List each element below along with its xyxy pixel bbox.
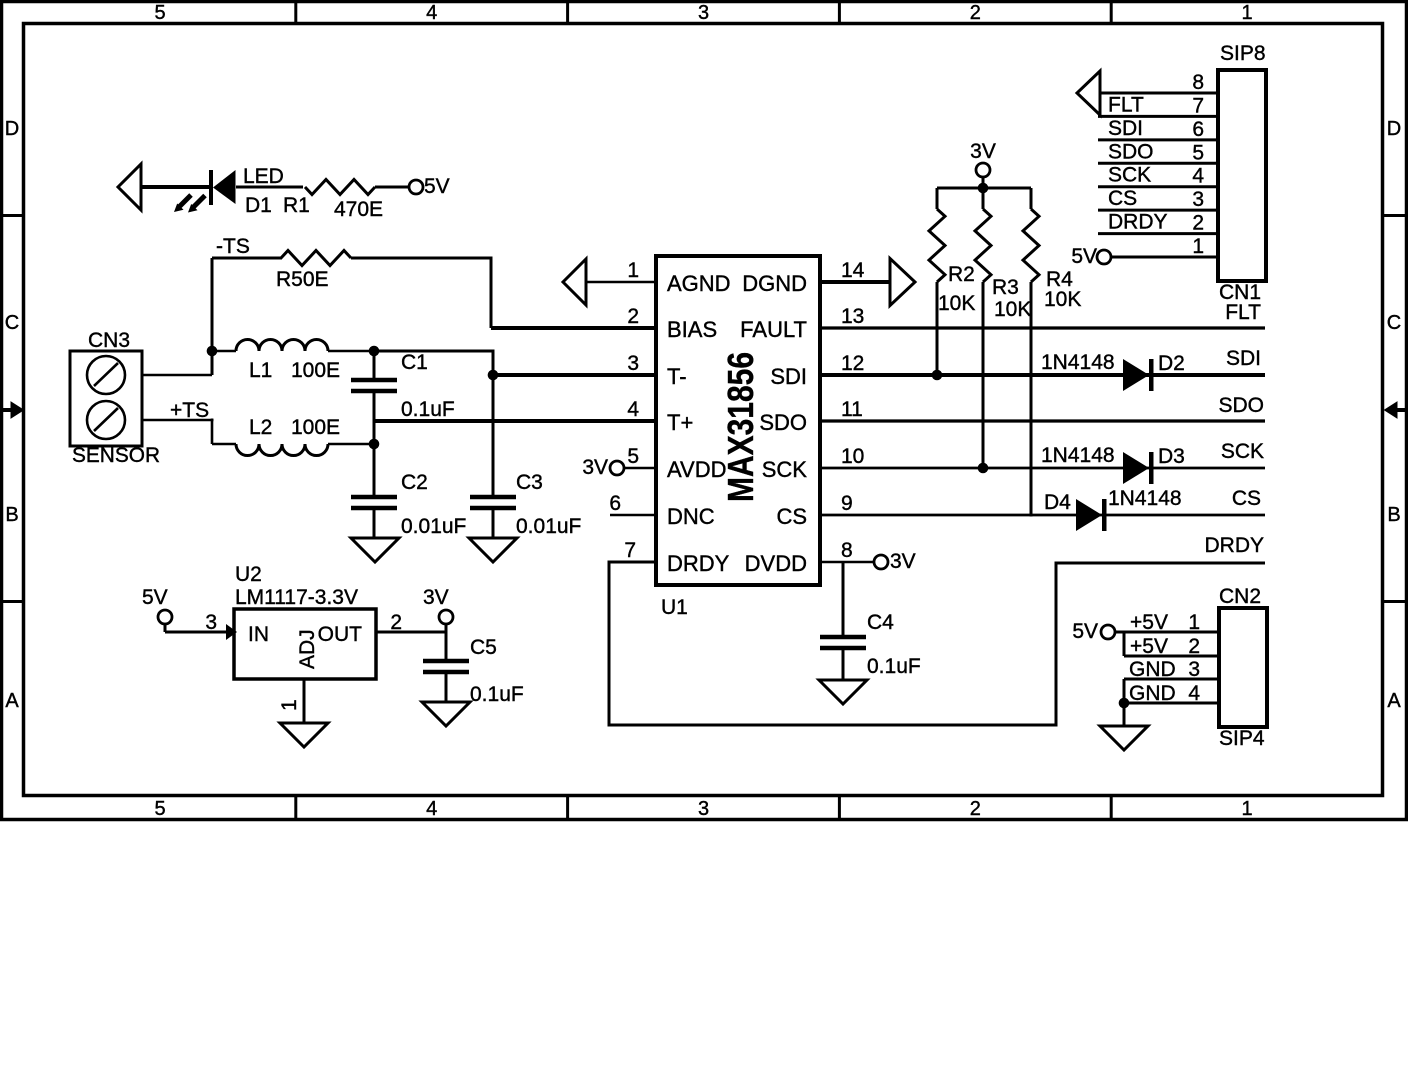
diode D4 [1076,499,1107,531]
svg-text:5: 5 [1192,141,1204,164]
junction [932,370,943,381]
supply terminal 3V (U2 out) [439,610,453,624]
svg-text:5: 5 [154,2,165,24]
wire BIAS [491,326,656,330]
wire DNC stub [610,514,656,517]
diode D3 [1123,452,1154,484]
wire [212,257,282,260]
svg-text:6: 6 [609,492,621,515]
wire [445,624,448,632]
wire [351,257,493,329]
ground [819,680,867,704]
capacitor C1 [351,351,397,444]
svg-text:0.1uF: 0.1uF [401,398,455,421]
wire DRDY from pin 7 [609,561,1265,727]
svg-text:1: 1 [627,259,639,282]
svg-text:-TS: -TS [216,235,250,258]
svg-text:R2: R2 [948,263,975,286]
supply terminal 5V (U2 in) [158,610,172,624]
border column numbers top [154,2,1252,24]
border row letters right [1387,118,1402,712]
svg-text:SDO: SDO [1108,140,1154,163]
wire T+ [374,419,656,423]
capacitor C5 [423,632,469,702]
svg-text:B: B [1387,504,1400,526]
svg-text:5V: 5V [142,586,168,609]
wire [375,186,409,189]
border inner frame [24,24,1383,796]
op-amp U1 MAX31856 body [656,256,820,585]
capacitor C3 [470,375,516,538]
wire [1098,185,1218,188]
svg-text:10: 10 [841,445,864,468]
wire [1100,92,1218,95]
capacitor C2 [351,444,397,538]
connector CN1 SIP8 body [1218,70,1266,281]
wire [1098,209,1218,212]
svg-text:D2: D2 [1158,352,1185,375]
svg-text:R3: R3 [992,276,1019,299]
svg-text:CN1: CN1 [1219,281,1261,304]
connector CN3 [70,351,142,446]
border bottom ruler ticks [296,796,1111,820]
svg-text:1: 1 [278,699,301,711]
svg-text:U1: U1 [661,596,688,619]
svg-text:R1: R1 [283,194,310,217]
svg-text:5V: 5V [1071,245,1097,268]
svg-text:L1: L1 [249,359,272,382]
svg-text:T+: T+ [667,410,693,435]
svg-text:4: 4 [426,2,437,24]
svg-text:3: 3 [627,352,639,375]
connector CN2 SIP4 body [1219,608,1267,727]
svg-text:DNC: DNC [667,504,715,529]
svg-text:0.01uF: 0.01uF [516,515,581,538]
wire SCK [820,467,1265,470]
svg-text:+5V: +5V [1130,611,1168,634]
svg-text:1: 1 [1188,611,1200,634]
svg-text:SENSOR: SENSOR [72,444,160,467]
svg-text:5: 5 [154,798,165,820]
resistor R1 [305,180,375,195]
svg-text:1: 1 [1192,235,1204,258]
wire [1123,703,1126,726]
svg-text:LM1117-3.3V: LM1117-3.3V [235,586,358,609]
wire [1124,679,1219,703]
wire [820,561,874,564]
svg-text:CS: CS [1232,487,1261,510]
svg-text:11: 11 [841,398,863,421]
svg-text:GND: GND [1129,682,1176,705]
wire [624,467,656,470]
wire [328,350,374,353]
svg-text:1N4148: 1N4148 [1041,444,1115,467]
diode D2 [1123,359,1154,391]
svg-text:AVDD: AVDD [667,457,727,482]
svg-text:5V: 5V [1072,620,1098,643]
wire [212,443,236,446]
svg-text:2: 2 [627,305,639,328]
ground [1100,726,1148,750]
wire [328,443,374,446]
svg-text:0.01uF: 0.01uF [401,515,466,538]
svg-text:100E: 100E [291,359,340,382]
svg-text:SDI: SDI [1226,347,1261,370]
svg-text:SCK: SCK [1221,440,1264,463]
svg-text:C5: C5 [470,636,497,659]
svg-text:FLT: FLT [1225,301,1261,324]
svg-text:SIP8: SIP8 [1220,42,1266,65]
svg-text:4: 4 [426,798,437,820]
wire T- [493,373,656,377]
wire T- upper [374,351,495,375]
svg-text:0.1uF: 0.1uF [867,655,921,678]
svg-text:SIP4: SIP4 [1219,727,1265,750]
inductor L2 [236,444,328,456]
svg-text:10K: 10K [1044,288,1081,311]
svg-text:2: 2 [970,798,981,820]
resistor R4 [1023,188,1039,517]
wire [1111,256,1218,259]
svg-text:D: D [1387,118,1401,140]
svg-text:SDI: SDI [1108,117,1143,140]
svg-text:C2: C2 [401,471,428,494]
svg-text:C4: C4 [867,611,894,634]
svg-text:6: 6 [1192,118,1204,141]
junction [369,439,380,450]
svg-text:D1: D1 [245,194,272,217]
ground arrow (LED cathode net) [118,164,141,210]
wire CS [820,514,1265,517]
resistor R2 [929,188,945,375]
wire [937,177,1031,188]
junction [978,463,989,474]
svg-text:3V: 3V [582,456,608,479]
voltage regulator U2 body [234,609,376,679]
wire [142,374,212,377]
junction [488,370,499,381]
svg-text:9: 9 [841,492,853,515]
svg-text:10K: 10K [994,298,1031,321]
wire [236,186,303,189]
supply terminal 3V (DVDD) [874,555,888,569]
svg-text:CN2: CN2 [1219,585,1261,608]
ground [469,538,517,562]
ground [280,723,328,747]
svg-text:L2: L2 [249,416,272,439]
svg-text:DVDD: DVDD [745,551,807,576]
border outer frame [2,2,1407,820]
wire [165,624,227,632]
ground arrow DGND [890,259,915,306]
svg-text:0.1uF: 0.1uF [470,683,524,706]
supply terminal 3V (pullups) [976,163,990,177]
svg-text:C1: C1 [401,351,428,374]
svg-text:470E: 470E [334,198,383,221]
svg-text:GND: GND [1129,658,1176,681]
svg-text:3: 3 [698,798,709,820]
svg-text:7: 7 [624,539,636,562]
wire [1098,138,1218,141]
svg-text:8: 8 [1192,71,1204,94]
svg-text:OUT: OUT [318,623,363,646]
svg-text:FAULT: FAULT [740,317,807,342]
svg-text:12: 12 [841,352,864,375]
svg-text:BIAS: BIAS [667,317,717,342]
wire [1124,702,1219,705]
svg-text:4: 4 [1188,682,1200,705]
LED D1 [174,170,236,213]
border left ruler ticks [0,216,23,602]
svg-text:DRDY: DRDY [1108,211,1168,234]
svg-text:4: 4 [1192,165,1204,188]
wire -TS vertical [211,258,214,375]
svg-text:DGND: DGND [742,271,807,296]
svg-text:A: A [1387,690,1401,712]
svg-text:5V: 5V [424,175,450,198]
capacitor C4 [820,562,866,680]
ground [351,538,399,562]
svg-text:4: 4 [627,398,639,421]
svg-text:D4: D4 [1044,491,1071,514]
svg-text:LED: LED [243,165,284,188]
supply terminal 5V (CN2) [1101,625,1115,639]
svg-text:8: 8 [841,539,853,562]
svg-text:1: 1 [1242,798,1253,820]
svg-text:CS: CS [1108,187,1137,210]
ground [422,702,470,726]
svg-text:B: B [5,504,18,526]
svg-text:+TS: +TS [170,399,209,422]
wire [1098,232,1218,235]
resistor R3 [975,188,991,469]
svg-text:5: 5 [627,445,639,468]
svg-text:IN: IN [248,623,269,646]
svg-text:+5V: +5V [1130,635,1168,658]
svg-text:3: 3 [205,611,217,634]
svg-text:2: 2 [390,611,402,634]
svg-text:CN3: CN3 [88,329,130,352]
svg-text:100E: 100E [291,416,340,439]
wire ADJ [303,679,306,723]
svg-text:1N4148: 1N4148 [1108,487,1182,510]
junction [369,346,380,357]
svg-text:10K: 10K [938,292,975,315]
svg-text:C: C [1387,312,1401,334]
wire FLT [820,326,1265,329]
junction [978,183,989,194]
wire [140,185,211,189]
svg-text:D: D [5,118,19,140]
svg-text:SCK: SCK [762,457,808,482]
wire [586,281,656,284]
wire [1098,115,1218,118]
svg-text:13: 13 [841,305,864,328]
svg-text:C3: C3 [516,471,543,494]
svg-text:R50E: R50E [276,268,329,291]
svg-text:2: 2 [1192,212,1204,235]
svg-text:DRDY: DRDY [667,551,730,576]
resistor R50E [281,251,351,266]
svg-text:SDO: SDO [1218,394,1264,417]
svg-text:SDI: SDI [770,364,807,389]
svg-text:2: 2 [970,2,981,24]
wire [1115,631,1219,634]
svg-text:A: A [5,690,19,712]
svg-text:3V: 3V [890,550,916,573]
inductor L1 [236,340,328,352]
supply terminal 5V [409,180,423,194]
svg-text:1N4148: 1N4148 [1041,351,1115,374]
svg-text:3V: 3V [970,140,996,163]
wire [142,419,214,445]
wire [376,631,446,634]
wire [1124,631,1219,657]
wire [212,350,236,353]
svg-text:ADJ: ADJ [296,629,319,669]
supply terminal 5V (CN1 pin 1) [1097,250,1111,264]
svg-text:D3: D3 [1158,445,1185,468]
svg-text:AGND: AGND [667,271,731,296]
svg-text:C: C [5,312,19,334]
svg-text:2: 2 [1188,635,1200,658]
border right ruler ticks [1383,216,1408,602]
svg-text:SCK: SCK [1108,164,1151,187]
svg-text:1: 1 [1242,2,1253,24]
border top ruler ticks [296,0,1111,23]
svg-text:14: 14 [841,259,865,282]
border row letters left [5,118,20,712]
svg-text:3: 3 [698,2,709,24]
ground arrow AGND [563,259,586,305]
supply terminal 3V (AVDD) [610,461,624,475]
wire SDI [820,373,1265,377]
ground arrow (CN1 pin 8) [1077,71,1100,115]
border centering arrow right [1385,402,1408,418]
svg-text:3: 3 [1192,188,1204,211]
svg-text:T-: T- [667,364,687,389]
junction [1119,698,1130,709]
wire [1098,162,1218,165]
border centering arrow left [0,402,24,418]
svg-text:FLT: FLT [1108,93,1144,116]
wire [820,280,890,284]
border column numbers bottom [154,798,1252,820]
pin arrow (U2 IN) [226,624,237,640]
svg-text:CS: CS [776,504,807,529]
junction [207,346,218,357]
svg-text:3: 3 [1188,658,1200,681]
svg-text:U2: U2 [235,563,262,586]
wire SDO [820,419,1265,422]
svg-text:3V: 3V [423,586,449,609]
svg-text:SDO: SDO [759,410,807,435]
svg-text:DRDY: DRDY [1204,534,1264,557]
svg-text:7: 7 [1192,94,1204,117]
